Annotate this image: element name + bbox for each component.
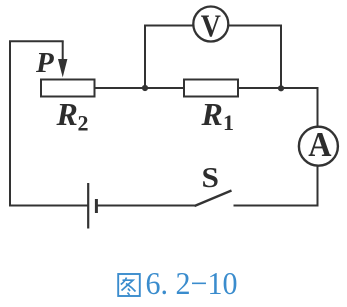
wire left vertical	[9, 41, 11, 205]
svg-text:R: R	[56, 96, 78, 132]
svg-text:6. 2−10: 6. 2−10	[146, 265, 238, 301]
wire voltmeter right branch	[229, 26, 282, 89]
switch S blade	[195, 191, 232, 207]
svg-text:A: A	[308, 126, 332, 165]
wire slider shaft	[62, 41, 64, 61]
wire top-left horizontal to slider	[9, 40, 64, 42]
svg-text:P: P	[35, 47, 54, 79]
glyph tu (figure) box	[118, 274, 140, 296]
battery short plate	[95, 199, 98, 213]
slider arrow P head	[58, 59, 67, 77]
svg-text:2: 2	[78, 111, 89, 136]
svg-text:S: S	[202, 163, 219, 193]
ammeter A	[299, 127, 338, 166]
resistor R1 body	[184, 80, 238, 97]
node junction right	[278, 85, 284, 91]
svg-text:1: 1	[223, 110, 234, 135]
wire battery to left corner	[9, 205, 88, 207]
voltmeter V	[193, 7, 228, 42]
svg-text:V: V	[201, 9, 221, 44]
battery long plate	[87, 183, 89, 229]
caption figure number	[118, 274, 140, 296]
wire main right of R1	[238, 87, 318, 89]
node junction left	[142, 85, 148, 91]
rheostat R2 body	[41, 80, 95, 97]
svg-text:R: R	[201, 96, 223, 132]
wire main between R2 and R1	[95, 87, 185, 89]
wire switch pivot to battery	[97, 205, 196, 207]
wire voltmeter left branch	[145, 26, 193, 89]
wire ammeter to bottom corner	[234, 166, 318, 206]
wire right vertical to ammeter	[317, 87, 319, 127]
